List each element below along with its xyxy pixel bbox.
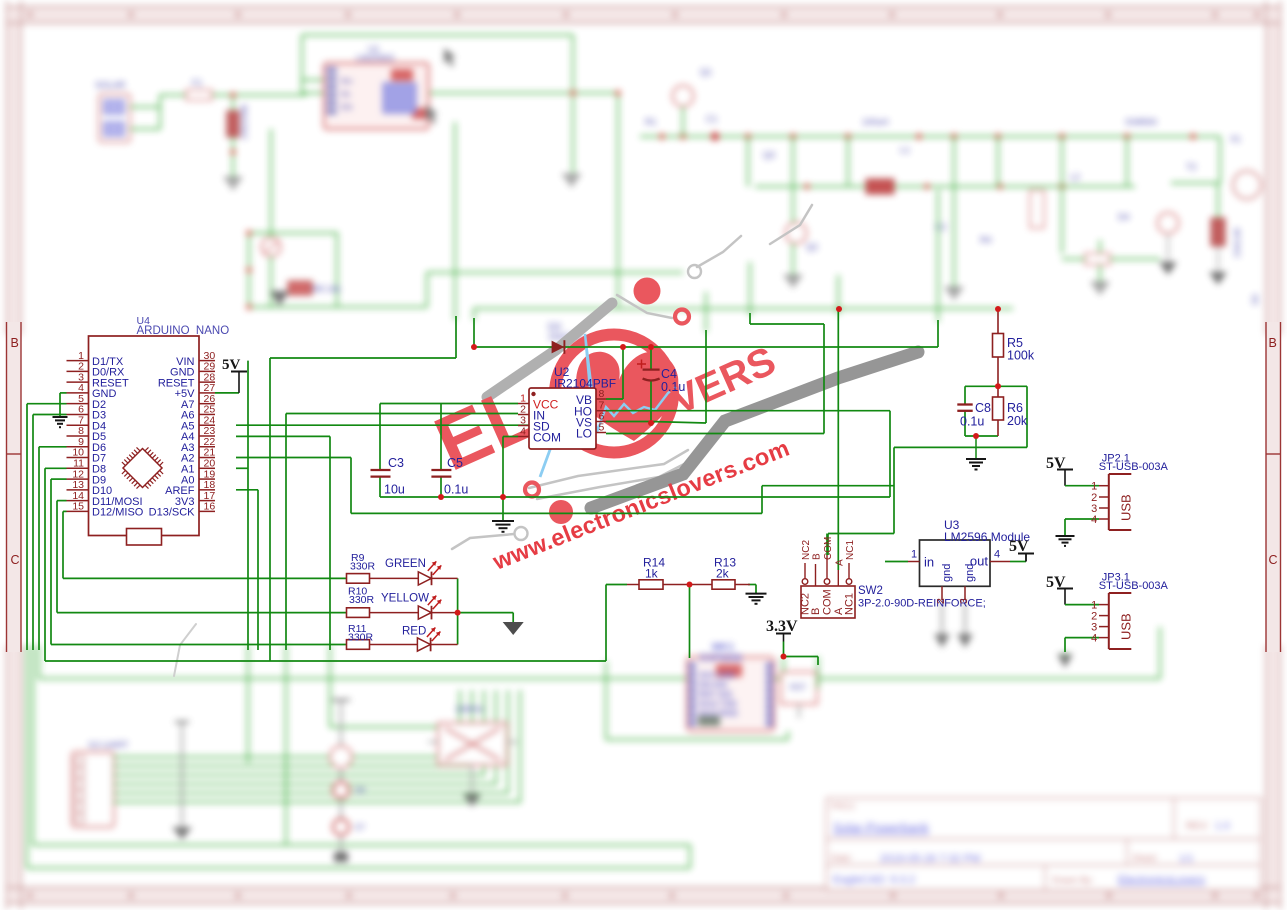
svg-text:100k: 100k <box>1007 349 1035 363</box>
svg-text:4: 4 <box>1091 514 1097 526</box>
svg-text:USB: USB <box>1118 494 1133 521</box>
svg-text:YELLOW: YELLOW <box>381 593 429 605</box>
svg-text:1: 1 <box>911 549 917 561</box>
svg-text:0.1u: 0.1u <box>444 483 468 497</box>
svg-text:4: 4 <box>994 549 1000 561</box>
svg-text:ST-USB-003A: ST-USB-003A <box>1099 461 1169 473</box>
svg-text:D12/MISO: D12/MISO <box>92 507 144 519</box>
svg-text:R6: R6 <box>1007 401 1023 415</box>
svg-text:RED: RED <box>402 626 426 638</box>
svg-text:gnd: gnd <box>941 564 953 582</box>
svg-text:NC1: NC1 <box>845 540 856 560</box>
svg-text:gnd: gnd <box>964 564 976 582</box>
svg-text:B: B <box>810 608 822 615</box>
svg-text:B: B <box>1269 336 1277 350</box>
svg-text:C: C <box>1269 553 1278 567</box>
svg-text:COM: COM <box>533 431 561 445</box>
svg-text:LO: LO <box>576 427 592 441</box>
svg-text:3.3V: 3.3V <box>766 618 798 635</box>
svg-text:B: B <box>11 336 19 350</box>
svg-text:C4: C4 <box>661 367 677 381</box>
svg-text:1: 1 <box>1091 481 1097 493</box>
svg-text:330R: 330R <box>350 561 376 573</box>
svg-text:D13/SCK: D13/SCK <box>149 507 196 519</box>
svg-text:4: 4 <box>520 426 526 438</box>
svg-text:in: in <box>924 555 934 570</box>
svg-text:B: B <box>812 553 823 560</box>
svg-text:C3: C3 <box>388 456 404 470</box>
svg-text:ST-USB-003A: ST-USB-003A <box>1099 580 1169 592</box>
svg-text:15: 15 <box>72 501 84 513</box>
svg-text:20k: 20k <box>1007 414 1028 428</box>
svg-text:330R: 330R <box>349 594 375 606</box>
svg-text:COM: COM <box>822 589 834 615</box>
svg-text:NC2: NC2 <box>801 540 812 560</box>
svg-text:1k: 1k <box>645 567 659 581</box>
svg-text:IR2104PBF: IR2104PBF <box>554 377 616 391</box>
svg-text:4: 4 <box>1091 633 1097 645</box>
svg-text:0.1u: 0.1u <box>661 380 685 394</box>
svg-text:C8: C8 <box>975 401 991 415</box>
svg-text:10u: 10u <box>384 483 405 497</box>
svg-text:2: 2 <box>935 598 947 604</box>
svg-text:5: 5 <box>599 422 605 434</box>
svg-text:USB: USB <box>1118 613 1133 640</box>
svg-text:C5: C5 <box>447 456 463 470</box>
svg-text:5V: 5V <box>222 357 241 373</box>
svg-text:5V: 5V <box>1009 538 1029 555</box>
svg-text:A: A <box>834 559 845 566</box>
svg-text:330R: 330R <box>348 632 374 644</box>
svg-text:2k: 2k <box>716 567 730 581</box>
svg-text:C: C <box>11 553 20 567</box>
svg-text:0.1u: 0.1u <box>960 415 984 429</box>
svg-text:SW2: SW2 <box>858 585 883 597</box>
svg-text:COM: COM <box>823 537 834 560</box>
svg-text:3: 3 <box>958 598 970 604</box>
svg-text:NC1: NC1 <box>844 593 856 615</box>
svg-text:16: 16 <box>204 501 216 513</box>
svg-text:GREEN: GREEN <box>385 558 426 570</box>
